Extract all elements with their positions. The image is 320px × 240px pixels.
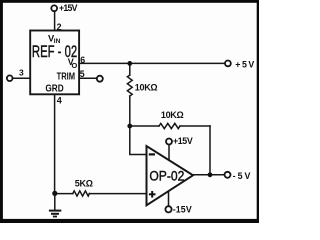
wire: feedback down to output node: [209, 126, 211, 175]
junction node: ground / R3 / pin 4: [52, 191, 57, 196]
svg-text:GRD: GRD: [45, 83, 64, 95]
wire: node to op-amp inverting input: [130, 126, 146, 155]
terminal pin 3: [7, 75, 13, 81]
wire: pin 6 VO to node A: [79, 62, 130, 64]
wire: pin 3 terminal to REF-02: [13, 77, 31, 79]
svg-text:10KΩ: 10KΩ: [161, 110, 184, 120]
resistor R1 10K (vertical): lead, zigzag, lead: [129, 63, 131, 75]
wire: node A to +5V terminal: [130, 62, 225, 64]
svg-text:OP-02: OP-02: [149, 168, 184, 183]
border frame bottom: [0, 219, 259, 223]
terminal -5V: [225, 172, 231, 178]
svg-text:+15V: +15V: [59, 3, 78, 13]
terminal op-amp -15V: [165, 206, 171, 212]
op-amp U2 OP-02 triangle: [147, 146, 194, 205]
IC U1 REF-02 body: [30, 31, 79, 95]
op-amp plus input sign: [149, 191, 156, 198]
border frame top: [0, 0, 259, 3]
svg-text:- 5 V: - 5 V: [233, 171, 251, 181]
svg-text:-15V: -15V: [173, 205, 192, 215]
resistor R2 10K (feedback): lead, zigzag, lead: [130, 125, 159, 127]
svg-text:10KΩ: 10KΩ: [135, 83, 158, 93]
svg-text:5: 5: [80, 69, 85, 79]
wire: op-amp +15V supply stub: [168, 144, 170, 160]
svg-text:3: 3: [19, 68, 24, 78]
svg-text:+15V: +15V: [173, 136, 193, 146]
ground stub: [54, 193, 56, 209]
junction node B: R1 / R2 / inverting input: [127, 124, 132, 129]
border frame left: [0, 0, 3, 223]
border frame right: [257, 0, 259, 223]
wire: pin 5 TRIM to terminal: [79, 77, 96, 79]
terminal TRIM pin 5: [97, 76, 103, 82]
svg-text:5KΩ: 5KΩ: [75, 178, 93, 188]
svg-text:2: 2: [57, 22, 62, 32]
svg-text:6: 6: [80, 55, 85, 65]
wire: op-amp output to -5V terminal: [193, 174, 225, 176]
wire: REF-02 pin 4 down to ground node: [54, 94, 56, 193]
wire: op-amp -15V supply stub: [168, 191, 170, 206]
junction node A: VO / R1 / +5V: [127, 61, 132, 66]
terminal +5V: [225, 61, 231, 67]
terminal op-amp +15V: [166, 139, 172, 145]
op-amp minus input sign: [149, 153, 155, 155]
wire: +15V terminal to REF-02 pin 2: [54, 11, 56, 30]
ground symbol bars: [49, 211, 61, 217]
junction node: output / feedback: [208, 172, 213, 177]
terminal +15V (top): [51, 5, 57, 11]
svg-text:+ 5 V: + 5 V: [235, 59, 254, 69]
svg-text:TRIM: TRIM: [57, 71, 76, 83]
resistor R3 5K: lead, zigzag, lead to op-amp + input: [55, 193, 73, 195]
svg-text:O: O: [72, 61, 78, 70]
svg-text:4: 4: [57, 95, 62, 105]
